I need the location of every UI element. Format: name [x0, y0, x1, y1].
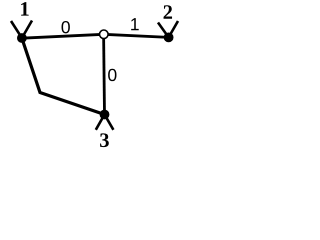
label node 3 [100, 133, 109, 147]
wire: edge circle to node3 [102, 34, 106, 114]
node 2 disk [164, 33, 174, 43]
label edge 1 right [131, 18, 139, 30]
wire: bent edge node1 to node3 [22, 38, 105, 114]
node 3 arms [96, 115, 114, 130]
node 1 arms [11, 21, 32, 39]
node 1 disk [17, 33, 27, 43]
node 2 arms [158, 21, 178, 37]
label node 2 [164, 5, 173, 19]
label node 1 [21, 2, 29, 16]
wire: edge node1 to circle [22, 34, 104, 38]
wire: edge circle to node2 [104, 34, 169, 37]
node circle (white) [100, 30, 109, 39]
node 3 disk [100, 110, 110, 120]
label edge 0 vertical [108, 69, 116, 81]
label edge 0 left [62, 21, 70, 33]
